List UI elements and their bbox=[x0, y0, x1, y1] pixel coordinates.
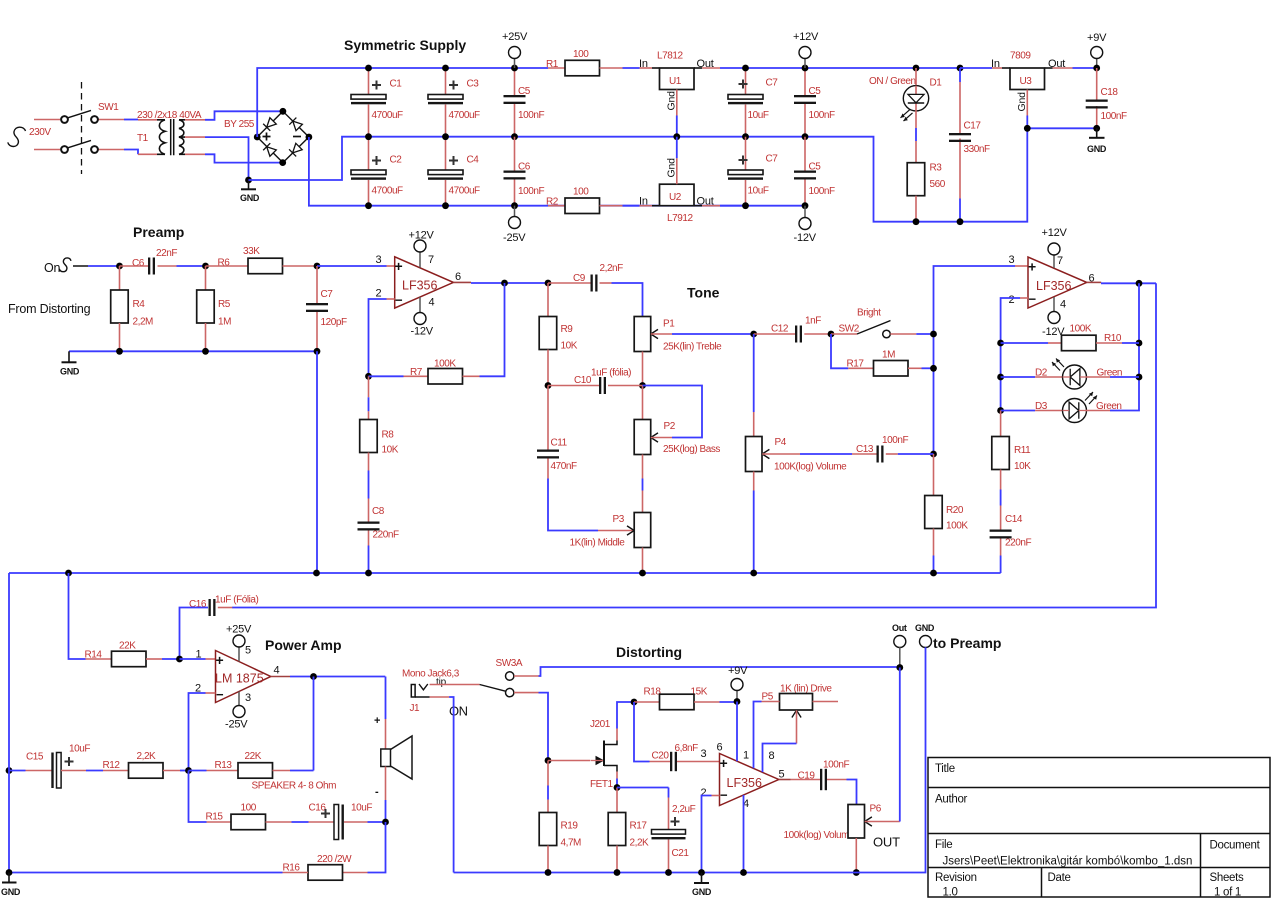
svg-text:+: + bbox=[720, 755, 728, 771]
transformer T1 bbox=[137, 110, 205, 155]
svg-text:GND: GND bbox=[915, 623, 935, 633]
svg-text:Jsers\Peet\Elektronika\gitár k: Jsers\Peet\Elektronika\gitár kombó\kombo… bbox=[943, 856, 1193, 868]
svg-text:100K: 100K bbox=[1070, 324, 1092, 335]
wire pin6 (+9V) bbox=[736, 702, 738, 762]
capacitor C21 2,2uF bbox=[617, 788, 696, 873]
capacitor C12 1nF bbox=[750, 316, 831, 343]
svg-text:R6: R6 bbox=[218, 258, 231, 269]
svg-text:+: + bbox=[374, 715, 380, 727]
svg-text:1 of 1: 1 of 1 bbox=[1214, 887, 1241, 899]
svg-text:Gnd: Gnd bbox=[666, 158, 678, 178]
terminal -12V (U5) bbox=[1042, 297, 1065, 338]
svg-text:C11: C11 bbox=[551, 438, 568, 449]
svg-text:+: + bbox=[395, 258, 403, 274]
capacitor C4 bbox=[428, 133, 480, 209]
AC source 230V bbox=[8, 127, 52, 147]
svg-text:C5: C5 bbox=[518, 86, 531, 97]
svg-text:R13: R13 bbox=[215, 760, 233, 771]
svg-text:C7: C7 bbox=[766, 154, 779, 165]
svg-text:Document: Document bbox=[1210, 840, 1261, 852]
svg-text:J201: J201 bbox=[590, 719, 611, 730]
svg-text:P4: P4 bbox=[775, 437, 787, 448]
svg-text:22K: 22K bbox=[119, 641, 136, 652]
svg-text:C18: C18 bbox=[1101, 87, 1119, 98]
wire tone vertical (pin3 net) bbox=[930, 266, 1028, 457]
svg-text:U1: U1 bbox=[669, 76, 682, 87]
svg-text:Preamp: Preamp bbox=[133, 224, 184, 240]
ground bus preamp + GND bbox=[60, 348, 320, 377]
speaker SPEAKER 4-8 Ohm bbox=[252, 677, 413, 823]
svg-text:FET1: FET1 bbox=[590, 779, 614, 790]
svg-text:SW2: SW2 bbox=[839, 324, 860, 335]
svg-text:SPEAKER 4- 8 Ohm: SPEAKER 4- 8 Ohm bbox=[252, 781, 337, 792]
svg-text:+25V: +25V bbox=[226, 624, 252, 636]
svg-text:R8: R8 bbox=[382, 430, 395, 441]
regulator U2 L7912 bbox=[639, 137, 746, 224]
svg-text:C14: C14 bbox=[1005, 514, 1023, 525]
resistor R12 2,2K bbox=[103, 751, 192, 778]
resistor R7 100K bbox=[365, 283, 504, 384]
svg-text:1M: 1M bbox=[218, 317, 231, 328]
svg-text:1: 1 bbox=[196, 649, 202, 661]
svg-text:1uF (fólia): 1uF (fólia) bbox=[591, 368, 631, 379]
svg-text:4: 4 bbox=[1060, 299, 1066, 311]
svg-text:3: 3 bbox=[1009, 254, 1015, 266]
resistor R9 10K bbox=[539, 283, 578, 386]
ground GND (C18) bbox=[1087, 128, 1107, 154]
resistor R4 2,2M bbox=[111, 266, 153, 351]
svg-text:230V: 230V bbox=[29, 127, 51, 138]
capacitor C17 330nF bbox=[949, 65, 990, 226]
resistor R18 15K bbox=[631, 687, 737, 710]
svg-text:R9: R9 bbox=[561, 324, 574, 335]
svg-text:LF356: LF356 bbox=[727, 776, 762, 790]
svg-text:R17: R17 bbox=[630, 821, 648, 832]
svg-text:J1: J1 bbox=[410, 703, 421, 714]
svg-text:Revision: Revision bbox=[935, 872, 977, 884]
wire gnd mid bus bbox=[249, 128, 1097, 221]
terminal -12V (U4) bbox=[411, 297, 434, 338]
svg-text:File: File bbox=[935, 839, 952, 851]
svg-text:OUT: OUT bbox=[873, 835, 900, 850]
capacitor C7 120pF bbox=[306, 266, 347, 351]
ground GND (power amp) bbox=[1, 869, 21, 897]
wire preamp gnd down to main bus bbox=[316, 351, 318, 573]
svg-text:10K: 10K bbox=[1014, 461, 1031, 472]
resistor R19 4,7M bbox=[539, 757, 581, 872]
capacitor C16 10uF (output) bbox=[309, 803, 389, 840]
svg-text:R4: R4 bbox=[133, 299, 146, 310]
capacitor C11 470nF bbox=[537, 386, 598, 531]
svg-text:+25V: +25V bbox=[502, 31, 528, 43]
node C10 junction bbox=[545, 382, 646, 389]
terminal +25V bbox=[502, 31, 528, 68]
terminal +9V (U7) bbox=[728, 665, 748, 705]
svg-text:100nF: 100nF bbox=[518, 186, 544, 197]
svg-text:R19: R19 bbox=[561, 821, 579, 832]
svg-text:100nF: 100nF bbox=[518, 110, 544, 121]
svg-text:Bright: Bright bbox=[857, 308, 881, 319]
svg-text:7809: 7809 bbox=[1010, 51, 1031, 62]
op-amp U4 LF356 (preamp) bbox=[376, 254, 462, 309]
svg-text:Symmetric Supply: Symmetric Supply bbox=[344, 37, 466, 53]
svg-text:Title: Title bbox=[935, 763, 955, 775]
svg-text:C12: C12 bbox=[771, 324, 789, 335]
svg-text:LF356: LF356 bbox=[402, 279, 437, 293]
svg-text:2,2K: 2,2K bbox=[137, 751, 157, 762]
svg-text:2,2uF: 2,2uF bbox=[672, 804, 696, 815]
svg-text:1K(lin) Middle: 1K(lin) Middle bbox=[570, 538, 626, 549]
capacitor C7 (bottom 10uF) bbox=[728, 137, 778, 209]
svg-text:2,2K: 2,2K bbox=[630, 838, 650, 849]
svg-text:L7812: L7812 bbox=[657, 51, 683, 62]
svg-text:100nF: 100nF bbox=[882, 435, 908, 446]
svg-text:−: − bbox=[720, 788, 728, 803]
terminal Out bbox=[892, 623, 907, 822]
capacitor C7 (top 10uF) bbox=[728, 65, 778, 141]
svg-text:C4: C4 bbox=[467, 155, 480, 166]
svg-text:R11: R11 bbox=[1014, 445, 1031, 456]
potentiometer P1 25K(lin) Treble bbox=[634, 317, 754, 386]
svg-text:2: 2 bbox=[376, 288, 382, 300]
svg-text:C3: C3 bbox=[467, 79, 480, 90]
capacitor C5 bbox=[504, 65, 545, 141]
LED D3 Green bbox=[997, 392, 1139, 423]
capacitor C2 bbox=[351, 133, 403, 209]
svg-text:Gnd: Gnd bbox=[666, 91, 678, 111]
svg-text:1uF (Fólia): 1uF (Fólia) bbox=[215, 595, 259, 606]
terminal -25V (U6) bbox=[225, 692, 248, 731]
ground GND (bridge) bbox=[240, 177, 260, 203]
svg-text:P6: P6 bbox=[870, 804, 882, 815]
switch SW3A bbox=[480, 658, 900, 761]
resistor R15 100 bbox=[189, 771, 309, 830]
capacitor C3 bbox=[428, 65, 480, 137]
svg-text:+12V: +12V bbox=[1042, 227, 1068, 239]
svg-text:T1: T1 bbox=[137, 133, 149, 144]
svg-text:D1: D1 bbox=[930, 78, 943, 89]
svg-text:4700uF: 4700uF bbox=[372, 110, 404, 121]
resistor R16 220/2W bbox=[9, 573, 386, 880]
svg-text:2,2nF: 2,2nF bbox=[600, 263, 624, 274]
wire U7 output + capacitor C19 100nF bbox=[779, 760, 857, 805]
svg-text:From Distorting: From Distorting bbox=[8, 302, 91, 316]
svg-text:to Preamp: to Preamp bbox=[933, 635, 1001, 651]
terminal +12V (U4) bbox=[409, 230, 435, 268]
svg-text:Gnd: Gnd bbox=[1016, 92, 1028, 112]
LED D1 ON/Green bbox=[869, 65, 942, 163]
capacitor C20 6,8nF bbox=[634, 702, 720, 771]
ground GND (distorting) bbox=[692, 873, 712, 898]
svg-text:LF356: LF356 bbox=[1036, 279, 1071, 293]
terminal -25V bbox=[503, 206, 526, 244]
wire pin4 (U7) bbox=[743, 795, 745, 873]
svg-text:C16: C16 bbox=[309, 803, 327, 814]
svg-text:4: 4 bbox=[274, 665, 280, 677]
capacitor C14 220nF bbox=[990, 514, 1032, 573]
svg-text:2,2M: 2,2M bbox=[133, 317, 154, 328]
svg-text:100: 100 bbox=[573, 49, 589, 60]
svg-text:+12V: +12V bbox=[793, 31, 819, 43]
svg-text:−: − bbox=[1029, 292, 1037, 307]
svg-text:-12V: -12V bbox=[411, 326, 434, 338]
terminal -12V bbox=[794, 206, 817, 244]
capacitor C5 (top-right 100nF) bbox=[794, 65, 835, 141]
svg-text:BY 255: BY 255 bbox=[224, 119, 255, 130]
svg-text:10uF: 10uF bbox=[351, 803, 372, 814]
svg-text:-25V: -25V bbox=[225, 719, 248, 731]
svg-text:C17: C17 bbox=[964, 121, 982, 132]
connector J1 Mono Jack 6,3 bbox=[402, 669, 480, 873]
terminal +25V (U6) bbox=[226, 624, 252, 662]
transistor FET1 J201 bbox=[548, 702, 634, 790]
capacitor C10 1uF (fólia) bbox=[548, 368, 643, 395]
svg-text:-: - bbox=[375, 786, 379, 798]
svg-text:R3: R3 bbox=[930, 163, 943, 174]
svg-text:120pF: 120pF bbox=[321, 317, 347, 328]
svg-text:In: In bbox=[639, 196, 648, 208]
svg-text:−: − bbox=[395, 293, 403, 308]
svg-text:U2: U2 bbox=[669, 192, 682, 203]
svg-text:25K(lin) Treble: 25K(lin) Treble bbox=[663, 342, 722, 353]
svg-text:100: 100 bbox=[241, 803, 257, 814]
svg-text:6: 6 bbox=[455, 271, 461, 283]
svg-text:1M: 1M bbox=[882, 350, 895, 361]
svg-text:6: 6 bbox=[717, 742, 723, 754]
terminal GND (to preamp) bbox=[911, 623, 935, 873]
op-amp U6 LM1875 (power amp) bbox=[195, 645, 280, 705]
capacitor C13 100nF bbox=[852, 435, 934, 463]
svg-text:Mono Jack6,3: Mono Jack6,3 bbox=[402, 669, 460, 680]
svg-text:+9V: +9V bbox=[728, 665, 748, 677]
LED D2 Green bbox=[997, 359, 1142, 390]
switch SW1 bbox=[34, 82, 138, 174]
svg-text:P2: P2 bbox=[664, 421, 676, 432]
title block text bbox=[935, 763, 1261, 899]
svg-text:tip: tip bbox=[436, 677, 447, 688]
capacitor C6 22nF bbox=[116, 248, 205, 275]
wire pin2 (U5) bbox=[1001, 298, 1028, 343]
wire top bus +rail bbox=[257, 68, 548, 137]
svg-text:10uF: 10uF bbox=[748, 110, 769, 121]
svg-text:33K: 33K bbox=[243, 246, 260, 257]
potentiometer P2 25K(log) Bass bbox=[634, 386, 720, 513]
svg-text:3: 3 bbox=[701, 748, 707, 760]
svg-text:Distorting: Distorting bbox=[616, 644, 682, 660]
svg-text:SW1: SW1 bbox=[98, 102, 119, 113]
wire pin2 (U4) bbox=[369, 299, 395, 376]
terminal +9V bbox=[1087, 32, 1107, 71]
wire transformer to bridge bbox=[205, 111, 283, 180]
svg-text:P3: P3 bbox=[613, 514, 625, 525]
op-amp U5 LF356 (tone) bbox=[1009, 254, 1095, 311]
svg-text:C20: C20 bbox=[652, 751, 670, 762]
resistor R17 1M bbox=[831, 334, 934, 376]
svg-text:LM 1875: LM 1875 bbox=[215, 672, 264, 686]
svg-text:8: 8 bbox=[769, 750, 775, 762]
capacitor C18 100nF bbox=[1086, 68, 1127, 132]
svg-text:100nF: 100nF bbox=[809, 110, 835, 121]
wire R6 to pin3 bbox=[314, 263, 395, 270]
svg-text:100K(log) Volume: 100K(log) Volume bbox=[774, 462, 847, 473]
wire distorting gnd bus bbox=[454, 869, 911, 876]
capacitor C16 1uF (Fólia) bbox=[180, 595, 259, 660]
svg-text:4: 4 bbox=[429, 297, 435, 309]
svg-text:C10: C10 bbox=[574, 375, 592, 386]
resistor R11 10K bbox=[992, 411, 1031, 530]
svg-text:C8: C8 bbox=[372, 506, 385, 517]
svg-text:C6: C6 bbox=[132, 258, 145, 269]
svg-text:GND: GND bbox=[240, 193, 260, 203]
wire bottom -rail bbox=[309, 137, 805, 206]
svg-text:100: 100 bbox=[573, 187, 589, 198]
svg-text:U3: U3 bbox=[1020, 76, 1033, 87]
svg-text:SW3A: SW3A bbox=[496, 658, 523, 669]
svg-text:7: 7 bbox=[1057, 255, 1063, 267]
svg-text:GND: GND bbox=[1, 887, 21, 897]
svg-text:Tone: Tone bbox=[687, 285, 720, 301]
wire U5 output bbox=[1087, 280, 1156, 287]
resistor R10 100K bbox=[997, 324, 1142, 351]
capacitor C15 10uF bbox=[6, 744, 103, 789]
node On (input) bbox=[44, 258, 120, 275]
svg-text:R15: R15 bbox=[206, 812, 224, 823]
wire U4 output bbox=[453, 280, 551, 287]
svg-text:10K: 10K bbox=[561, 341, 578, 352]
svg-text:C5: C5 bbox=[809, 86, 822, 97]
wire feedback to power amp (long) bbox=[232, 283, 1156, 607]
svg-text:2: 2 bbox=[1009, 294, 1015, 306]
svg-text:C2: C2 bbox=[390, 155, 403, 166]
svg-text:C21: C21 bbox=[672, 848, 690, 859]
svg-text:L7912: L7912 bbox=[667, 213, 693, 224]
wire U6 output bbox=[271, 673, 386, 770]
wire tone feedback vertical bbox=[1001, 283, 1139, 410]
resistor R2 100 bbox=[546, 187, 660, 214]
switch SW2 Bright bbox=[828, 308, 934, 338]
svg-text:100nF: 100nF bbox=[809, 186, 835, 197]
svg-text:560: 560 bbox=[930, 179, 946, 190]
svg-text:3: 3 bbox=[376, 254, 382, 266]
svg-text:GND: GND bbox=[60, 367, 80, 377]
svg-text:P1: P1 bbox=[663, 319, 675, 330]
svg-text:10K: 10K bbox=[382, 445, 399, 456]
svg-text:On: On bbox=[44, 261, 61, 275]
capacitor C5 (bottom-right 100nF) bbox=[794, 137, 835, 209]
potentiometer P3 1K(lin) Middle bbox=[570, 513, 651, 574]
wire pin1 node bbox=[176, 656, 215, 663]
svg-text:6,8nF: 6,8nF bbox=[675, 743, 699, 754]
svg-text:220 /2W: 220 /2W bbox=[317, 854, 352, 865]
svg-text:3: 3 bbox=[245, 692, 251, 704]
svg-text:ON / Green: ON / Green bbox=[869, 76, 916, 87]
regulator U1 L7812 bbox=[639, 51, 960, 141]
resistor R1 100 bbox=[546, 49, 660, 76]
svg-text:+: + bbox=[1028, 259, 1036, 275]
svg-text:470nF: 470nF bbox=[551, 461, 577, 472]
op-amp U7 LF356 (distorting) bbox=[701, 742, 785, 811]
terminal +12V (U5) bbox=[1042, 227, 1068, 268]
svg-text:22K: 22K bbox=[245, 751, 262, 762]
bridge rectifier BY255 bbox=[224, 108, 312, 166]
svg-text:−: − bbox=[216, 687, 224, 702]
svg-text:25K(log) Bass: 25K(log) Bass bbox=[663, 444, 720, 455]
svg-text:Author: Author bbox=[935, 794, 968, 806]
svg-text:7: 7 bbox=[428, 254, 434, 266]
capacitor C1 bbox=[351, 65, 403, 137]
svg-text:22nF: 22nF bbox=[156, 248, 177, 259]
capacitor C6 bbox=[504, 137, 545, 209]
capacitor C9 2,2nF bbox=[548, 263, 643, 317]
regulator U3 7809 bbox=[960, 51, 1097, 132]
resistor R14 22K bbox=[69, 573, 180, 667]
svg-text:-12V: -12V bbox=[794, 232, 817, 244]
svg-text:330nF: 330nF bbox=[964, 144, 990, 155]
svg-text:R20: R20 bbox=[946, 505, 964, 516]
wire pin2 (U7) bbox=[702, 796, 720, 873]
svg-text:1nF: 1nF bbox=[805, 316, 821, 327]
svg-text:100k(log) Volume: 100k(log) Volume bbox=[784, 830, 856, 841]
svg-text:5: 5 bbox=[245, 645, 251, 657]
svg-text:1: 1 bbox=[743, 750, 749, 762]
capacitor C8 220nF bbox=[358, 506, 399, 573]
svg-text:C7: C7 bbox=[766, 78, 779, 89]
resistor R8 10K bbox=[360, 376, 399, 521]
resistor R13 22K bbox=[189, 751, 314, 778]
svg-text:100K: 100K bbox=[946, 521, 968, 532]
svg-text:C1: C1 bbox=[390, 79, 403, 90]
svg-text:ON: ON bbox=[449, 704, 468, 719]
svg-text:C5: C5 bbox=[809, 162, 822, 173]
wire main gnd bus bbox=[9, 570, 1001, 577]
resistor R17 2,2K (distorting) bbox=[608, 784, 649, 872]
svg-text:R5: R5 bbox=[218, 299, 231, 310]
wire pin2 (U6) bbox=[189, 693, 216, 771]
svg-text:Power Amp: Power Amp bbox=[265, 637, 342, 653]
potentiometer P4 100K(log) Volume bbox=[746, 334, 853, 573]
svg-text:+: + bbox=[216, 652, 224, 668]
resistor R20 100K bbox=[925, 454, 969, 573]
svg-text:+9V: +9V bbox=[1087, 32, 1107, 44]
svg-text:1.0: 1.0 bbox=[943, 887, 958, 899]
svg-text:R12: R12 bbox=[103, 760, 121, 771]
terminal +12V bbox=[793, 31, 819, 68]
svg-text:C15: C15 bbox=[26, 752, 44, 763]
svg-text:In: In bbox=[639, 58, 648, 70]
svg-text:4700uF: 4700uF bbox=[449, 186, 481, 197]
svg-text:C6: C6 bbox=[518, 162, 531, 173]
svg-text:Sheets: Sheets bbox=[1210, 872, 1245, 884]
svg-text:100nF: 100nF bbox=[1101, 111, 1127, 122]
svg-text:GND: GND bbox=[1087, 144, 1107, 154]
svg-text:Out: Out bbox=[892, 623, 907, 633]
svg-text:220nF: 220nF bbox=[373, 530, 399, 541]
resistor R6 33K bbox=[206, 246, 318, 274]
svg-text:4,7M: 4,7M bbox=[561, 838, 582, 849]
svg-text:Date: Date bbox=[1048, 872, 1071, 884]
svg-text:220nF: 220nF bbox=[1005, 538, 1031, 549]
svg-text:10uF: 10uF bbox=[748, 186, 769, 197]
potentiometer P5 1K(lin) Drive bbox=[754, 684, 839, 773]
svg-text:GND: GND bbox=[692, 887, 712, 897]
svg-text:4700uF: 4700uF bbox=[372, 186, 404, 197]
title block bbox=[928, 758, 1270, 898]
resistor R5 1M bbox=[197, 263, 231, 352]
svg-text:10uF: 10uF bbox=[69, 744, 90, 755]
svg-text:4700uF: 4700uF bbox=[449, 110, 481, 121]
potentiometer P6 100k(log) Volume bbox=[784, 804, 901, 876]
svg-text:-25V: -25V bbox=[503, 232, 526, 244]
